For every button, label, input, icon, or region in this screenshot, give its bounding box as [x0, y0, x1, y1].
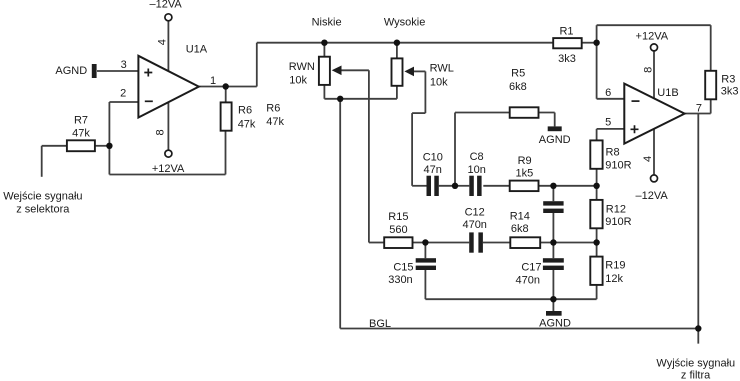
svg-text:R14: R14 — [510, 210, 530, 222]
resistor R8 — [590, 140, 602, 168]
svg-text:8: 8 — [155, 129, 167, 135]
U1B plus sign — [631, 125, 639, 133]
node output BGL — [695, 325, 701, 331]
resistor R5 — [510, 107, 539, 118]
power terminal circle -12VA U1A — [165, 14, 172, 21]
capacitor C15 plates — [416, 258, 436, 270]
svg-text:7: 7 — [696, 103, 702, 115]
wire U1B pin5 horizontal — [597, 128, 625, 130]
svg-text:C8: C8 — [470, 151, 484, 163]
wire RWN top lead — [323, 43, 325, 57]
wire R5 right — [539, 112, 555, 114]
node R1 output — [593, 40, 599, 46]
potentiometer RWN wiper arrow — [332, 66, 342, 76]
svg-text:470n: 470n — [516, 275, 540, 287]
svg-text:Wejście sygnału: Wejście sygnału — [3, 191, 82, 203]
svg-text:910R: 910R — [605, 160, 631, 172]
capacitor C8 plates — [469, 176, 481, 196]
potentiometer RWL body — [392, 58, 403, 85]
capacitor V1 unlabeled plates — [543, 201, 563, 213]
svg-text:Wysokie: Wysokie — [384, 17, 425, 29]
wire U1A pin8 power bottom — [167, 102, 169, 149]
potentiometer RWN body — [319, 57, 330, 85]
wire BGL horizontal — [340, 328, 698, 330]
svg-text:R15: R15 — [388, 211, 408, 223]
svg-text:AGND: AGND — [539, 134, 571, 146]
wire C15 top lead — [424, 243, 426, 259]
resistor R6 — [221, 102, 232, 130]
U1A plus sign — [144, 69, 152, 77]
svg-text:47k: 47k — [72, 127, 90, 139]
wire R5 to AGND — [554, 113, 556, 127]
svg-text:R19: R19 — [605, 260, 625, 272]
wire C10 to node A — [439, 185, 455, 187]
node row1 cap V1 — [550, 183, 556, 189]
wire R12 to R19 — [596, 228, 598, 256]
wire bottom AGND lead — [552, 299, 554, 311]
node bus RWL — [394, 40, 400, 46]
wire to R5 left — [455, 112, 510, 114]
resistor R1 — [553, 38, 582, 48]
svg-text:3: 3 — [121, 59, 127, 71]
wire row1 to C10 — [412, 185, 426, 187]
svg-text:+12VA: +12VA — [152, 163, 185, 175]
svg-text:47k: 47k — [238, 118, 256, 130]
svg-text:10n: 10n — [468, 164, 486, 176]
resistor R3 — [705, 71, 716, 100]
wire bottom row — [425, 298, 596, 300]
node A C10/C8/R5 — [452, 183, 458, 189]
wire feedback bottom horizontal — [109, 174, 225, 176]
svg-text:AGND: AGND — [539, 317, 571, 329]
svg-text:3k3: 3k3 — [721, 85, 739, 97]
wire output down to BGL node — [697, 114, 699, 344]
wire U1B pin6 horizontal — [597, 98, 625, 100]
wire R7 left lead — [42, 145, 67, 147]
wire feedback top horizontal — [597, 24, 711, 26]
wire node down to U1B pin6 — [596, 43, 598, 99]
wire node A up to R5 — [454, 113, 456, 186]
svg-text:C15: C15 — [393, 262, 413, 274]
op-amp U1B — [624, 84, 684, 144]
wire RWL top lead — [396, 43, 398, 59]
wire pot bottoms joining — [324, 98, 397, 100]
resistor R7 — [67, 140, 95, 151]
svg-text:C10: C10 — [423, 151, 443, 163]
wire output up to top bus — [256, 43, 258, 87]
svg-text:R9: R9 — [518, 155, 532, 167]
wire R14 to chain node row2 — [540, 242, 596, 244]
power terminal circle +12VA U1B — [651, 44, 658, 51]
wire pin2 vertical down to feedback node — [108, 102, 110, 175]
svg-text:R5: R5 — [511, 68, 525, 80]
svg-text:10k: 10k — [430, 77, 448, 89]
svg-text:6k8: 6k8 — [509, 81, 527, 93]
svg-text:R1: R1 — [559, 26, 573, 38]
svg-text:–12VA: –12VA — [149, 0, 182, 10]
wire BGL vertical drop — [339, 99, 341, 329]
svg-text:4: 4 — [642, 156, 654, 162]
wire RWL wiper down to row1 — [411, 113, 413, 186]
svg-text:470n: 470n — [462, 219, 486, 231]
node row2 R15/C12/C15 — [422, 239, 428, 245]
svg-text:R6: R6 — [266, 103, 280, 115]
wire C17 top lead — [552, 243, 554, 259]
svg-text:BGL: BGL — [369, 318, 391, 330]
power terminal circle -12VA U1B — [651, 175, 658, 182]
wire U1A output pin1 — [199, 86, 257, 88]
wire C12 to R14 — [483, 242, 510, 244]
wire feedback down to R3 — [710, 25, 712, 71]
U1A minus sign — [145, 100, 153, 102]
svg-text:–12VA: –12VA — [635, 190, 668, 202]
wire feedback node up — [596, 25, 598, 43]
wire cap V1 bottom lead — [552, 213, 554, 243]
wire input stub down — [41, 146, 43, 177]
node bottom AGND — [550, 296, 556, 302]
wire RWL wiper horizontal — [413, 70, 426, 72]
svg-text:Wyjście sygnału: Wyjście sygnału — [656, 357, 735, 369]
svg-text:C17: C17 — [521, 262, 541, 274]
svg-text:1k5: 1k5 — [516, 167, 534, 179]
svg-text:R12: R12 — [606, 203, 626, 215]
wire C17 bottom lead — [552, 270, 554, 299]
op-amp U1A — [138, 56, 198, 118]
wire cap V1 top lead — [552, 186, 554, 201]
wire C15 bottom lead — [424, 270, 426, 299]
svg-text:5: 5 — [605, 117, 611, 129]
svg-text:U1A: U1A — [186, 44, 208, 56]
resistor R14 — [510, 237, 540, 248]
resistor R9 — [510, 181, 539, 192]
resistor R12 — [590, 200, 602, 228]
node bus RWN — [321, 40, 327, 46]
ground AGND bar at U1A pin3 — [92, 64, 97, 78]
resistor R15 — [384, 237, 412, 248]
ground AGND bar bottom — [546, 311, 562, 316]
svg-text:R8: R8 — [606, 147, 620, 159]
wire R3 bottom to output — [710, 99, 712, 113]
wire R9 to chain node — [539, 185, 597, 187]
svg-text:47k: 47k — [266, 116, 284, 128]
svg-text:330n: 330n — [388, 274, 412, 286]
wire RWN wiper horizontal — [340, 69, 369, 71]
svg-text:R3: R3 — [721, 73, 735, 85]
wire node A to C8 — [455, 185, 469, 187]
potentiometer RWL wiper arrow — [404, 67, 414, 77]
wire RWL wiper jog left — [412, 112, 425, 114]
wire U1B output pin7 — [685, 113, 711, 115]
wire RWN wiper down to R15 — [368, 70, 370, 242]
wire U1B pin8 power top — [653, 51, 655, 98]
wire top bus — [257, 42, 553, 44]
svg-text:R6: R6 — [238, 105, 252, 117]
wire RWL wiper down segment — [424, 71, 426, 113]
node row2 chain R12/R19 — [593, 239, 599, 245]
node pin2/R7 junction — [106, 143, 112, 149]
node row1 chain R8/R12 — [593, 183, 599, 189]
svg-text:6: 6 — [605, 87, 611, 99]
svg-text:4: 4 — [157, 39, 169, 45]
wire R6 top lead to output node — [225, 87, 227, 103]
resistor R19 — [590, 257, 602, 285]
svg-text:AGND: AGND — [55, 65, 87, 77]
svg-text:Niskie: Niskie — [312, 17, 342, 29]
svg-text:+12VA: +12VA — [636, 31, 669, 43]
wire RWN bottom lead — [323, 85, 325, 99]
svg-text:47n: 47n — [424, 164, 442, 176]
node U1A output — [223, 83, 229, 89]
wire R8 to R12 — [596, 169, 598, 200]
capacitor C17 plates — [543, 258, 564, 270]
U1B minus sign — [632, 100, 640, 102]
wire U1A pin2 horizontal — [109, 101, 138, 103]
wire R1 right to node — [582, 42, 597, 44]
svg-text:560: 560 — [389, 224, 407, 236]
wire R19 bottom to bottom row — [596, 285, 598, 299]
svg-text:3k3: 3k3 — [558, 53, 576, 65]
node pot bottoms BGL — [337, 96, 343, 102]
svg-text:RWN: RWN — [289, 61, 315, 73]
capacitor C10 plates — [427, 176, 439, 196]
svg-text:z filtra: z filtra — [681, 369, 711, 381]
svg-text:10k: 10k — [289, 75, 307, 87]
wire RWL bottom lead — [396, 86, 398, 99]
capacitor C12 plates — [469, 232, 483, 252]
wire U1A pin3 from AGND — [97, 70, 139, 72]
svg-text:RWL: RWL — [430, 62, 454, 74]
svg-text:U1B: U1B — [657, 87, 678, 99]
svg-text:C12: C12 — [465, 206, 485, 218]
svg-text:R7: R7 — [74, 115, 88, 127]
node row2 cap C17 — [550, 239, 556, 245]
svg-text:910R: 910R — [605, 216, 631, 228]
wire RWN wiper to R15 left — [369, 242, 384, 244]
wire U1A pin4 power top — [167, 22, 169, 72]
wire R7 right lead to node — [95, 145, 110, 147]
wire feedback up to R6 bottom — [225, 131, 227, 175]
wire C8 to R9 — [483, 185, 509, 187]
ground AGND bar at R5 — [548, 126, 562, 131]
svg-text:12k: 12k — [605, 273, 623, 285]
svg-text:8: 8 — [643, 67, 655, 73]
wire pin5 down to R8 — [596, 129, 598, 141]
wire U1B pin4 power bottom — [653, 129, 655, 174]
power terminal circle +12VA U1A — [165, 150, 172, 157]
svg-text:6k8: 6k8 — [511, 223, 529, 235]
svg-text:2: 2 — [120, 88, 126, 100]
svg-text:z selektora: z selektora — [16, 204, 70, 216]
svg-text:1: 1 — [210, 75, 216, 87]
wire row2 R15 right to C12 — [413, 242, 470, 244]
